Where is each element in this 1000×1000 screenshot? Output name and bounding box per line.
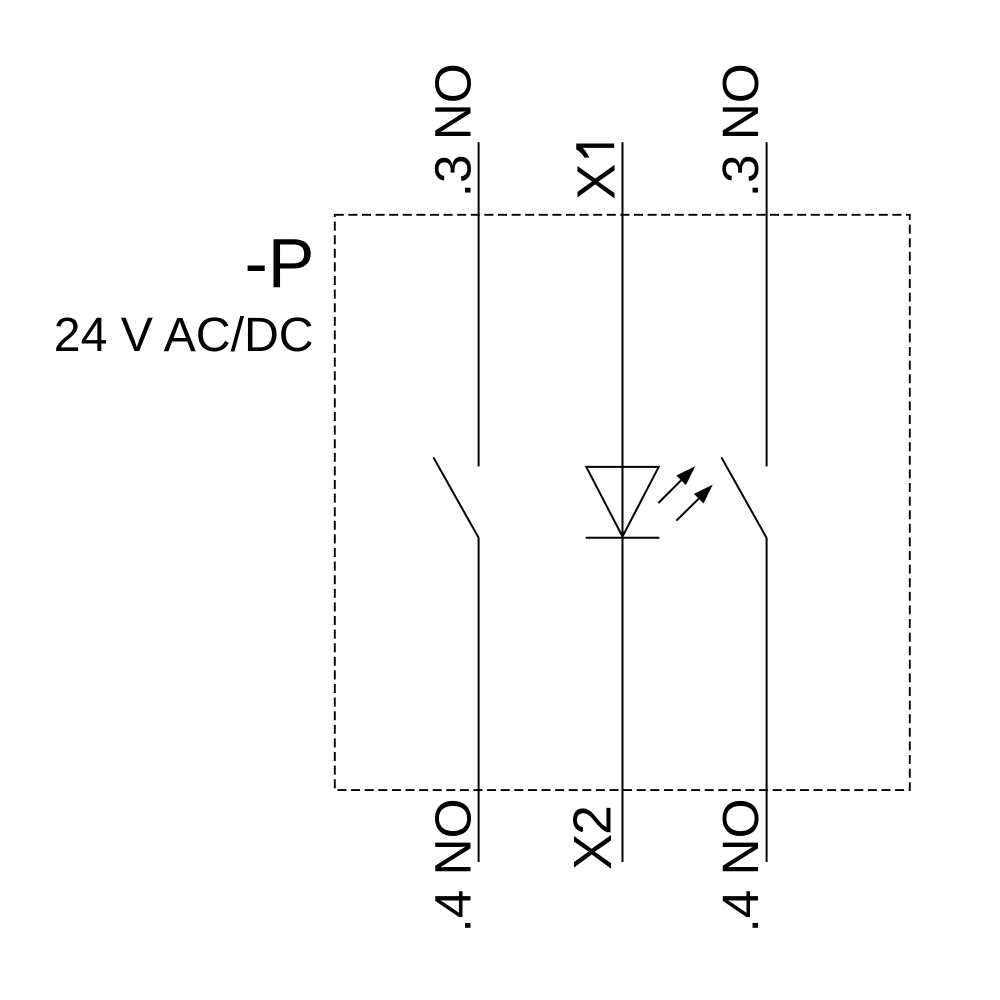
LED emission arrow 2 head (694, 485, 713, 504)
svg-text:.3 NO: .3 NO (424, 63, 481, 197)
svg-text:-P: -P (245, 224, 315, 302)
wire left upper (.3 terminal lead) (478, 142, 480, 466)
contact lever S2 (right NO contact) (721, 457, 766, 538)
wire left lower (.4 terminal lead) (478, 538, 480, 862)
svg-text:2: 2 (564, 805, 623, 835)
LED D1 triangle (anode) (586, 467, 658, 537)
LED emission arrow 2 shaft (676, 499, 698, 521)
wire right lower (.4 terminal lead) (766, 538, 768, 862)
LED emission arrow 1 shaft (658, 480, 681, 503)
svg-text:.4 NO: .4 NO (425, 799, 482, 933)
svg-text:.4 NO: .4 NO (712, 799, 769, 933)
svg-text:X: X (567, 164, 627, 200)
svg-text:24 V AC/DC: 24 V AC/DC (54, 308, 314, 362)
wire middle (X1-X2 lamp lead) (622, 142, 624, 862)
wire right upper (.3 terminal lead) (766, 142, 768, 466)
svg-text:.3 NO: .3 NO (712, 63, 769, 197)
device outline (dashed enclosure) (335, 215, 910, 790)
contact lever S1 (left NO contact) (433, 457, 478, 538)
svg-text:X: X (563, 834, 623, 870)
LED D1 cathode bar (586, 537, 660, 539)
LED emission arrow 1 head (676, 466, 695, 485)
